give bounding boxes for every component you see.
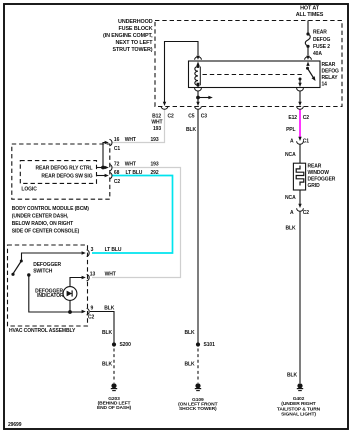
svg-text:WHT: WHT: [105, 272, 116, 278]
svg-text:29699: 29699: [8, 422, 22, 428]
svg-text:(IN ENGINE COMPT,: (IN ENGINE COMPT,: [103, 33, 153, 39]
svg-text:BLK: BLK: [185, 330, 195, 336]
svg-text:HVAC CONTROL ASSEMBLY: HVAC CONTROL ASSEMBLY: [9, 328, 76, 334]
svg-text:WHT: WHT: [125, 162, 136, 168]
svg-text:C2: C2: [303, 115, 310, 121]
svg-text:DEFOGGER: DEFOGGER: [308, 176, 336, 182]
svg-text:SWITCH: SWITCH: [33, 268, 53, 274]
svg-text:68: 68: [114, 170, 120, 176]
svg-text:16: 16: [114, 137, 120, 143]
svg-text:ALL TIMES: ALL TIMES: [296, 12, 324, 18]
svg-text:A: A: [290, 210, 294, 216]
svg-text:WINDOW: WINDOW: [308, 170, 330, 176]
svg-text:B12: B12: [152, 114, 161, 120]
svg-text:BLK: BLK: [102, 361, 112, 367]
svg-text:A: A: [290, 139, 294, 145]
svg-text:DEFOGGER: DEFOGGER: [33, 262, 61, 268]
svg-text:C2: C2: [114, 179, 121, 185]
svg-text:C1: C1: [303, 139, 310, 145]
svg-text:3: 3: [91, 247, 94, 253]
svg-text:C5: C5: [188, 114, 195, 120]
svg-text:BLK: BLK: [286, 226, 296, 232]
svg-text:193: 193: [153, 126, 161, 132]
svg-text:BLK: BLK: [185, 361, 195, 367]
svg-text:E12: E12: [288, 115, 297, 121]
svg-text:GRID: GRID: [308, 183, 321, 189]
svg-text:RELAY: RELAY: [322, 75, 339, 81]
svg-text:BODY CONTROL MODULE (BCM): BODY CONTROL MODULE (BCM): [12, 206, 89, 212]
svg-text:WHT: WHT: [125, 137, 136, 143]
svg-text:S101: S101: [204, 342, 216, 348]
svg-text:STRUT TOWER): STRUT TOWER): [112, 47, 152, 53]
svg-text:C2: C2: [88, 315, 95, 321]
svg-text:(UNDER CENTER DASH,: (UNDER CENTER DASH,: [12, 213, 69, 219]
svg-text:C2: C2: [168, 114, 175, 120]
svg-text:LT BLU: LT BLU: [126, 170, 143, 176]
svg-text:40A: 40A: [313, 51, 322, 57]
svg-text:DEFOG: DEFOG: [313, 37, 330, 43]
svg-text:NEXT TO LEFT: NEXT TO LEFT: [115, 40, 153, 46]
svg-text:BLK: BLK: [104, 306, 114, 312]
svg-text:292: 292: [151, 170, 159, 176]
svg-text:REAR: REAR: [313, 30, 327, 36]
svg-text:72: 72: [114, 162, 120, 168]
svg-text:BLK: BLK: [186, 127, 196, 133]
svg-text:S200: S200: [120, 342, 132, 348]
svg-text:REAR DEFOG RLY CTRL: REAR DEFOG RLY CTRL: [36, 166, 93, 172]
svg-text:REAR: REAR: [322, 62, 336, 68]
svg-text:END OF DASH): END OF DASH): [97, 405, 132, 411]
svg-text:REAR DEFOG SW SIG: REAR DEFOG SW SIG: [41, 174, 92, 180]
svg-text:UNDERHOOD: UNDERHOOD: [118, 19, 153, 25]
svg-text:SIDE OF CENTER CONSOLE): SIDE OF CENTER CONSOLE): [12, 228, 80, 234]
svg-text:NCA: NCA: [285, 195, 296, 201]
svg-text:INDICATOR: INDICATOR: [37, 293, 64, 299]
svg-text:WHT: WHT: [151, 120, 162, 126]
svg-text:LT BLU: LT BLU: [105, 247, 122, 253]
svg-text:LOGIC: LOGIC: [21, 186, 37, 192]
svg-text:193: 193: [151, 162, 159, 168]
svg-text:FUSE BLOCK: FUSE BLOCK: [118, 26, 152, 32]
svg-text:BELOW RADIO, ON RIGHT: BELOW RADIO, ON RIGHT: [12, 221, 73, 227]
svg-text:DEFOG: DEFOG: [322, 69, 339, 75]
svg-text:C3: C3: [201, 114, 208, 120]
svg-text:9: 9: [91, 306, 94, 312]
svg-text:TAIL/STOP & TURN: TAIL/STOP & TURN: [277, 406, 321, 412]
svg-text:NCA: NCA: [285, 152, 296, 158]
svg-text:SIGNAL LIGHT): SIGNAL LIGHT): [281, 412, 316, 418]
svg-text:HOT AT: HOT AT: [300, 6, 320, 12]
svg-text:SHOCK TOWER): SHOCK TOWER): [179, 406, 217, 412]
svg-text:BLK: BLK: [102, 330, 112, 336]
svg-text:REAR: REAR: [308, 163, 322, 169]
svg-text:FUSE 2: FUSE 2: [313, 44, 330, 50]
svg-text:13: 13: [90, 272, 96, 278]
svg-text:14: 14: [322, 81, 328, 87]
svg-text:PPL: PPL: [286, 127, 295, 133]
svg-text:193: 193: [151, 137, 159, 143]
svg-text:C1: C1: [114, 146, 121, 152]
svg-text:BLK: BLK: [287, 373, 297, 379]
svg-text:(UNDER RIGHT: (UNDER RIGHT: [281, 401, 316, 407]
svg-text:C2: C2: [303, 210, 310, 216]
